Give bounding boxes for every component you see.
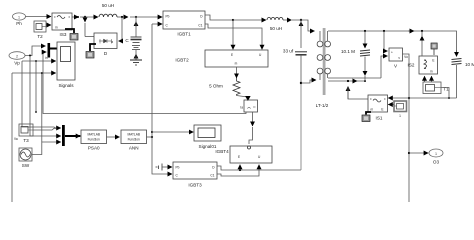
inport Vp bbox=[9, 52, 25, 66]
outport O3 bbox=[429, 149, 443, 165]
svg-text:10 M: 10 M bbox=[465, 62, 474, 67]
svg-text:IS3: IS3 bbox=[60, 32, 67, 37]
feedback vertical scope branch bbox=[35, 61, 37, 112]
resistor 10.1 M bbox=[341, 30, 370, 81]
wire L2 to node D bbox=[283, 19, 292, 21]
resistor 10 M bbox=[452, 31, 474, 98]
wire Ph to IS3 bbox=[26, 16, 52, 18]
svg-text:Signals: Signals bbox=[58, 83, 74, 88]
wire IGBT3 C1 to IGBT4 U bbox=[217, 165, 259, 176]
wire gate net to IGBT1 C bbox=[152, 23, 162, 25]
svg-text:C: C bbox=[176, 174, 179, 178]
goto tag 2 bbox=[86, 52, 94, 59]
wire scope in2 bbox=[22, 60, 56, 62]
wire down into IGBT2 E bbox=[232, 20, 234, 49]
svg-text:ANN: ANN bbox=[129, 146, 139, 151]
svg-text:1: 1 bbox=[399, 114, 401, 118]
wire T small to IS1 bbox=[388, 104, 394, 106]
mux1 bbox=[48, 43, 58, 58]
IGBT4 subsystem bbox=[215, 146, 272, 163]
inport Ph bbox=[13, 13, 26, 26]
transformer LT-1/2 bbox=[316, 28, 331, 108]
scope Signals bbox=[45, 42, 75, 88]
svg-text:1: 1 bbox=[18, 15, 20, 19]
svg-text:in: in bbox=[45, 56, 48, 60]
primary return riser bbox=[300, 83, 302, 170]
svg-text:E: E bbox=[381, 108, 383, 112]
MATLAB Function PSA0 bbox=[81, 130, 107, 151]
wire Ia bottom to IGBT4 o bbox=[252, 112, 254, 126]
wire T2 to IS3 bbox=[46, 24, 51, 26]
long feedback wire Va bbox=[12, 73, 18, 202]
wire node A down to diode block bbox=[84, 17, 86, 37]
svg-text:IS1: IS1 bbox=[376, 116, 383, 121]
svg-text:Vo: Vo bbox=[404, 55, 408, 59]
svg-text:C1: C1 bbox=[210, 174, 214, 178]
ground bbox=[130, 60, 142, 65]
svg-text:D: D bbox=[200, 15, 203, 19]
wire IGBT1 C1 to IGBT2 U bbox=[205, 24, 262, 49]
wire to Signal01 scope bbox=[151, 131, 193, 133]
secondary bottom rail bbox=[328, 80, 366, 82]
svg-text:PSA0: PSA0 bbox=[88, 146, 100, 151]
wire IS1 riser bbox=[347, 87, 349, 100]
svg-text:U: U bbox=[259, 53, 262, 57]
mini tag above IS2 bbox=[431, 43, 437, 55]
svg-text:IGBT4: IGBT4 bbox=[215, 149, 229, 154]
wire Vo to outport bbox=[408, 152, 428, 154]
svg-text:D: D bbox=[104, 51, 108, 56]
svg-text:5 Ohm: 5 Ohm bbox=[209, 84, 223, 89]
svg-text:U: U bbox=[258, 155, 261, 159]
svg-text:T3: T3 bbox=[23, 138, 29, 143]
node D junction bbox=[292, 19, 315, 31]
wire IGBT1 D to rail bbox=[205, 15, 233, 20]
gate drive net vertical bbox=[147, 24, 173, 174]
svg-text:SW: SW bbox=[22, 163, 30, 168]
wire PSA0 to ANN bbox=[107, 136, 120, 138]
svg-text:O3: O3 bbox=[433, 160, 440, 165]
block T3 bbox=[19, 124, 33, 143]
scope Signal01 bbox=[194, 125, 221, 149]
svg-text:IGBT1: IGBT1 bbox=[177, 32, 191, 37]
wire right rail to IS1 bbox=[388, 97, 456, 99]
svg-text:MATLAB: MATLAB bbox=[87, 133, 100, 137]
measurement block IS1 bbox=[368, 95, 388, 121]
svg-text:MATLAB: MATLAB bbox=[127, 133, 140, 137]
wire into mux1 in2 bbox=[43, 51, 46, 53]
wire node E to primary bottom bbox=[301, 80, 316, 83]
current measurement Ia bbox=[240, 100, 257, 112]
svg-text:m: m bbox=[235, 62, 238, 66]
svg-text:+: + bbox=[391, 51, 393, 55]
svg-text:Signal01: Signal01 bbox=[199, 144, 217, 149]
junction on Vp wire bbox=[29, 55, 31, 57]
node B junction bbox=[121, 16, 123, 18]
svg-text:a: a bbox=[111, 40, 113, 44]
junction on D rail bbox=[232, 19, 263, 21]
svg-text:E: E bbox=[238, 155, 240, 159]
svg-text:D: D bbox=[212, 166, 215, 170]
wire T1 to right rail bbox=[441, 88, 449, 99]
resistor 5 Ohm bbox=[209, 78, 240, 95]
svg-text:2: 2 bbox=[16, 54, 18, 58]
goto tag 1 bbox=[70, 34, 78, 41]
Vo output net bbox=[403, 54, 411, 202]
inductor L2 50 uH bbox=[263, 17, 283, 31]
IGBT chopper subsystem IGBT3 bbox=[173, 162, 217, 188]
svg-text:1: 1 bbox=[435, 152, 437, 156]
capacitor C branch bbox=[125, 17, 141, 60]
svg-text:Vp: Vp bbox=[14, 61, 20, 66]
svg-text:Function: Function bbox=[128, 138, 140, 142]
MATLAB Function ANN bbox=[121, 130, 147, 151]
wire IS1 m to tag bbox=[366, 112, 371, 115]
svg-text:IGBT2: IGBT2 bbox=[175, 58, 189, 63]
svg-text:Va: Va bbox=[14, 137, 18, 141]
block T1 bbox=[423, 82, 449, 94]
IGBT2 subsystem bbox=[175, 50, 268, 67]
svg-text:LT-1/2: LT-1/2 bbox=[316, 103, 329, 108]
feedback vertical to mux2 in1 bbox=[22, 61, 61, 128]
voltage measurement V bbox=[328, 30, 408, 78]
junction Vo crossing bbox=[410, 97, 412, 99]
svg-text:IGBT3: IGBT3 bbox=[188, 183, 202, 188]
wire node B down to diode a bbox=[119, 17, 123, 41]
block T2 bbox=[34, 21, 46, 39]
current measurement IS3 bbox=[52, 13, 72, 37]
wire Vp to mux1 bbox=[25, 46, 46, 56]
svg-text:m: m bbox=[55, 26, 58, 30]
diode block D bbox=[94, 33, 117, 56]
feedback vertical to mux2 in3 bbox=[41, 73, 43, 142]
wire IS3 m to tag bbox=[65, 29, 74, 33]
wires T1 to IS2 bbox=[425, 76, 432, 82]
svg-text:10.1 M: 10.1 M bbox=[341, 49, 355, 54]
svg-text:C: C bbox=[166, 24, 169, 28]
wire resistor to Ia block bbox=[237, 96, 248, 98]
svg-text:C: C bbox=[125, 38, 129, 43]
svg-text:50 uH: 50 uH bbox=[270, 26, 282, 31]
inductor L1 50 uH bbox=[99, 3, 117, 17]
svg-text:v: v bbox=[398, 56, 400, 60]
node A junction bbox=[77, 16, 98, 18]
mux2 bbox=[62, 125, 80, 146]
svg-text:IS2: IS2 bbox=[408, 63, 415, 68]
wire IS3 to node A bbox=[72, 16, 79, 18]
svg-text:Function: Function bbox=[88, 138, 100, 142]
wire T3 to mux2 bbox=[33, 128, 56, 130]
secondary top rail bbox=[328, 30, 454, 32]
IGBT chopper subsystem IGBT1 bbox=[163, 11, 205, 37]
svg-text:E: E bbox=[432, 59, 434, 63]
wire SW to mux2 in3 bbox=[32, 142, 61, 155]
svg-text:E: E bbox=[231, 53, 233, 57]
node C junction bbox=[130, 16, 162, 18]
wire L1 to node B bbox=[117, 16, 128, 18]
svg-text:50 uH: 50 uH bbox=[102, 3, 114, 8]
wire IS2 top riser bbox=[408, 30, 423, 56]
node E junction bbox=[300, 82, 302, 84]
wire diode m to tag bbox=[90, 44, 96, 51]
goto tag IS1 bbox=[362, 115, 370, 122]
wire scope in3 bbox=[12, 72, 56, 74]
feedback vertical to mux2 in2 bbox=[30, 56, 61, 137]
sine wave source SW bbox=[19, 148, 32, 168]
block T small bbox=[394, 101, 407, 118]
svg-text:m: m bbox=[430, 70, 433, 74]
svg-text:T2: T2 bbox=[37, 34, 43, 39]
wire IGBT3 D to IGBT4 E and primary return bbox=[217, 165, 301, 171]
svg-text:V: V bbox=[394, 64, 398, 69]
svg-text:Ia: Ia bbox=[240, 106, 243, 110]
svg-text:Ph: Ph bbox=[16, 21, 22, 26]
capacitor 33 uf branch bbox=[283, 20, 307, 83]
svg-text:Pb: Pb bbox=[166, 15, 170, 19]
svg-text:33 uf: 33 uf bbox=[283, 49, 294, 54]
wire Ia out to feedback line bbox=[43, 54, 246, 114]
svg-text:Pb: Pb bbox=[176, 166, 180, 170]
svg-text:m: m bbox=[371, 108, 374, 112]
svg-text:C1: C1 bbox=[198, 24, 202, 28]
measurement block IS2 bbox=[408, 56, 438, 74]
pulse source symbol bbox=[156, 164, 173, 171]
wire IGBT2 m down bbox=[236, 67, 238, 78]
